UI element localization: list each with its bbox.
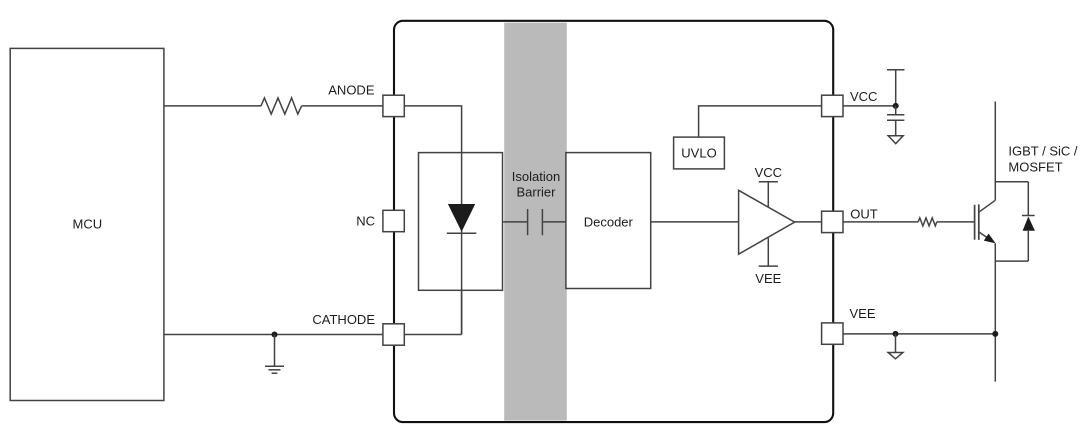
svg-text:Isolation: Isolation <box>512 169 560 184</box>
svg-text:NC: NC <box>356 214 375 229</box>
svg-text:IGBT / SiC /: IGBT / SiC / <box>1008 144 1077 159</box>
transistor Q1 (IGBT) <box>975 200 996 240</box>
svg-text:CATHODE: CATHODE <box>312 312 375 327</box>
svg-text:MCU: MCU <box>72 216 102 231</box>
buffer U2 (driver amp) <box>739 190 795 254</box>
svg-text:VCC: VCC <box>755 165 782 180</box>
svg-text:ANODE: ANODE <box>328 82 375 97</box>
pin CATHODE <box>383 324 404 345</box>
UVLO box <box>674 137 725 169</box>
svg-text:Barrier: Barrier <box>516 184 556 199</box>
gate resistor R2 <box>918 218 937 226</box>
pin OUT <box>822 211 843 232</box>
buffer VCC stub <box>755 165 782 207</box>
wire resistor to ANODE pin <box>302 105 383 107</box>
buffer VEE stub <box>755 238 781 286</box>
junction dot VCC <box>893 103 899 109</box>
label IGBT / SiC / MOSFET <box>1008 144 1077 175</box>
resistor R1 <box>261 98 302 114</box>
svg-text:OUT: OUT <box>850 206 878 221</box>
wire UVLO to VCC pin <box>699 106 822 137</box>
IC body U1 <box>394 21 833 422</box>
power ground GND2 (triangle) <box>888 136 903 144</box>
freewheeling diode D2 <box>1022 182 1035 261</box>
Decoder box <box>566 153 651 289</box>
pin NC <box>383 210 404 231</box>
power ground GND3 (triangle) <box>888 334 903 359</box>
decoupling capacitor C2 <box>887 106 904 136</box>
junction dot emitter <box>992 331 998 337</box>
wire MCU to resistor R1 <box>164 105 261 107</box>
pin VCC <box>822 95 843 116</box>
wire VCC pin to rail <box>843 105 896 107</box>
wire CATHODE pin to LED branch <box>404 334 461 336</box>
svg-text:VCC: VCC <box>850 89 877 104</box>
svg-text:VEE: VEE <box>755 271 781 286</box>
wire buffer to OUT pin <box>795 221 822 223</box>
wire resistor to IGBT gate <box>937 221 975 223</box>
emitter rail to diode <box>995 260 1028 262</box>
pin ANODE <box>383 95 404 116</box>
LED D1 (diode) <box>447 204 477 233</box>
svg-text:UVLO: UVLO <box>681 145 716 160</box>
LED input box <box>419 153 503 291</box>
wire OUT pin to gate resistor <box>843 221 918 223</box>
pin VEE <box>822 323 843 344</box>
svg-text:Decoder: Decoder <box>584 214 634 229</box>
wire ANODE pin to LED branch <box>404 106 461 153</box>
wire LED branch vertical through LED box <box>461 153 463 335</box>
LED wire inside box <box>461 153 463 335</box>
emitter arrow head <box>984 234 996 244</box>
wire Decoder to buffer <box>651 221 739 223</box>
wire CATHODE: MCU to pin <box>164 334 383 336</box>
Isolation Barrier label <box>512 169 560 199</box>
junction dot on cathode wire <box>272 332 278 338</box>
ground GND1 (earth) <box>265 335 284 374</box>
svg-text:VEE: VEE <box>850 306 876 321</box>
svg-text:MOSFET: MOSFET <box>1008 160 1062 175</box>
coupling capacitor C1 across barrier <box>503 209 566 235</box>
emitter lead <box>994 243 996 381</box>
isolation barrier band <box>504 23 567 421</box>
collector rail to diode <box>995 181 1028 183</box>
collector lead <box>994 102 996 201</box>
wire VEE pin to IGBT emitter <box>843 333 995 335</box>
VCC rail terminal <box>887 70 905 106</box>
MCU box <box>10 48 164 400</box>
junction dot VEE ground <box>893 331 899 337</box>
